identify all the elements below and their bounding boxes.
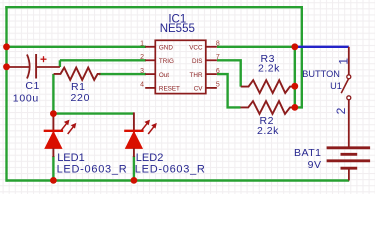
svg-text:2: 2 [140, 54, 144, 61]
LED1 cathode lead [52, 148, 54, 157]
pin 5 stub [206, 87, 217, 89]
wire TRIG pin2 horizontal [60, 59, 146, 61]
LED2 cathode lead [133, 148, 135, 157]
pin 8 stub [206, 46, 217, 48]
LED1 triangle [45, 132, 62, 149]
wire R1 left down to LED rail [52, 74, 54, 114]
junction node LED1 bottom [50, 177, 57, 184]
wire THR pin6 to R2 left [217, 74, 241, 107]
wire GND top rail [5, 6, 302, 8]
LED2 triangle [125, 132, 142, 149]
svg-text:LED2: LED2 [136, 152, 164, 164]
svg-text:CV: CV [194, 86, 204, 93]
capacitor C1 left lead [7, 66, 30, 68]
svg-text:2: 2 [334, 107, 348, 114]
svg-text:LED1: LED1 [57, 152, 85, 164]
wire LED1 cathode to bottom rail [52, 156, 54, 181]
wire GND left rail [5, 6, 7, 182]
wire GND pin1 from left rail to IC pin 1 [7, 46, 147, 48]
resistor R2 2.2k [241, 101, 295, 114]
wire GND bottom rail [7, 179, 350, 181]
capacitor C1 curved plate [27, 55, 30, 79]
svg-text:NE555: NE555 [160, 23, 195, 35]
button U1 pin 2 contact [347, 96, 351, 100]
junction node LED rail R1 [50, 110, 57, 117]
junction node B R2 right [291, 104, 298, 111]
junction node LED2 bottom [131, 177, 138, 184]
svg-text:100u: 100u [13, 92, 39, 104]
svg-text:4: 4 [140, 82, 144, 89]
battery BAT1 short plate 1 [341, 153, 358, 156]
LED1 arrow 1 [61, 120, 70, 131]
svg-text:5: 5 [216, 82, 220, 89]
wire Out pin3 to R1 right [99, 73, 146, 75]
LED1 anode lead [52, 114, 54, 133]
wire VCC pin8 to node [217, 46, 295, 48]
svg-text:9V: 9V [308, 159, 322, 171]
svg-text:RESET: RESET [159, 86, 180, 93]
svg-text:7: 7 [216, 54, 220, 61]
LED2 arrow 2 [148, 123, 157, 134]
pin 4 stub [145, 87, 155, 89]
svg-text:2.2k: 2.2k [257, 125, 279, 137]
svg-text:THR: THR [190, 72, 203, 79]
svg-text:LED-0603_R: LED-0603_R [135, 163, 206, 175]
svg-text:6: 6 [216, 68, 220, 75]
capacitor C1 right lead [36, 66, 60, 68]
svg-text:VCC: VCC [189, 44, 203, 51]
op-amp IC1 body (NE555) [155, 40, 206, 93]
battery BAT1 bottom lead [348, 168, 350, 180]
battery BAT1 top long plate [327, 146, 371, 149]
battery BAT1 short plate 2 [341, 167, 358, 170]
junction node VCC blue [291, 43, 298, 50]
LED2 anode lead [133, 112, 135, 132]
junction node left rail C1 [3, 63, 10, 70]
wire DIS pin7 to R3 left [217, 60, 241, 86]
svg-text:C1: C1 [25, 80, 39, 92]
svg-text:8: 8 [216, 41, 220, 48]
LED1 cathode bar [44, 130, 63, 132]
pin 7 stub [206, 59, 217, 61]
junction node A R3 right [291, 83, 298, 90]
capacitor C1 straight plate [35, 54, 37, 79]
svg-text:GND: GND [159, 44, 173, 51]
svg-text:BAT1: BAT1 [294, 147, 321, 159]
svg-text:BUTTON: BUTTON [302, 69, 340, 79]
wire TRIG vertical to C1 plus lead [59, 60, 61, 67]
svg-text:3: 3 [140, 68, 144, 75]
wire LED anode rail [53, 112, 133, 114]
button U1 top lead [348, 47, 350, 75]
wire blue from VCC node to button [295, 46, 349, 48]
capacitor C1 plus sign [41, 56, 47, 62]
svg-text:1: 1 [336, 58, 350, 65]
battery BAT1 long plate 2 [327, 159, 371, 162]
pin 2 stub [145, 59, 155, 61]
pin 6 stub [206, 73, 217, 75]
wire GND right drop from top rail to node B [295, 6, 302, 107]
button U1 pin 1 contact [347, 75, 351, 79]
button U1 bottom lead [348, 100, 350, 148]
junction node left rail GND pin1 [3, 43, 10, 50]
LED1 arrow 2 [68, 123, 77, 134]
svg-text:U1: U1 [330, 81, 342, 91]
svg-text:220: 220 [71, 92, 91, 104]
pin 1 stub [145, 46, 155, 48]
button U1 lever [341, 79, 348, 93]
svg-text:DIS: DIS [192, 58, 203, 65]
pin 3 stub [145, 73, 155, 75]
svg-text:LED-0603_R: LED-0603_R [57, 163, 128, 175]
svg-text:1: 1 [140, 41, 144, 48]
svg-text:TRIG: TRIG [159, 58, 174, 65]
svg-text:Out: Out [159, 72, 169, 79]
resistor R3 2.2k [241, 80, 295, 93]
LED2 cathode bar [124, 130, 143, 132]
svg-text:2.2k: 2.2k [258, 63, 280, 75]
resistor R1 220 [54, 68, 101, 80]
wire VCC node chain vertical [294, 47, 296, 108]
wire LED2 cathode to bottom rail [133, 156, 135, 181]
LED2 arrow 1 [141, 120, 150, 131]
